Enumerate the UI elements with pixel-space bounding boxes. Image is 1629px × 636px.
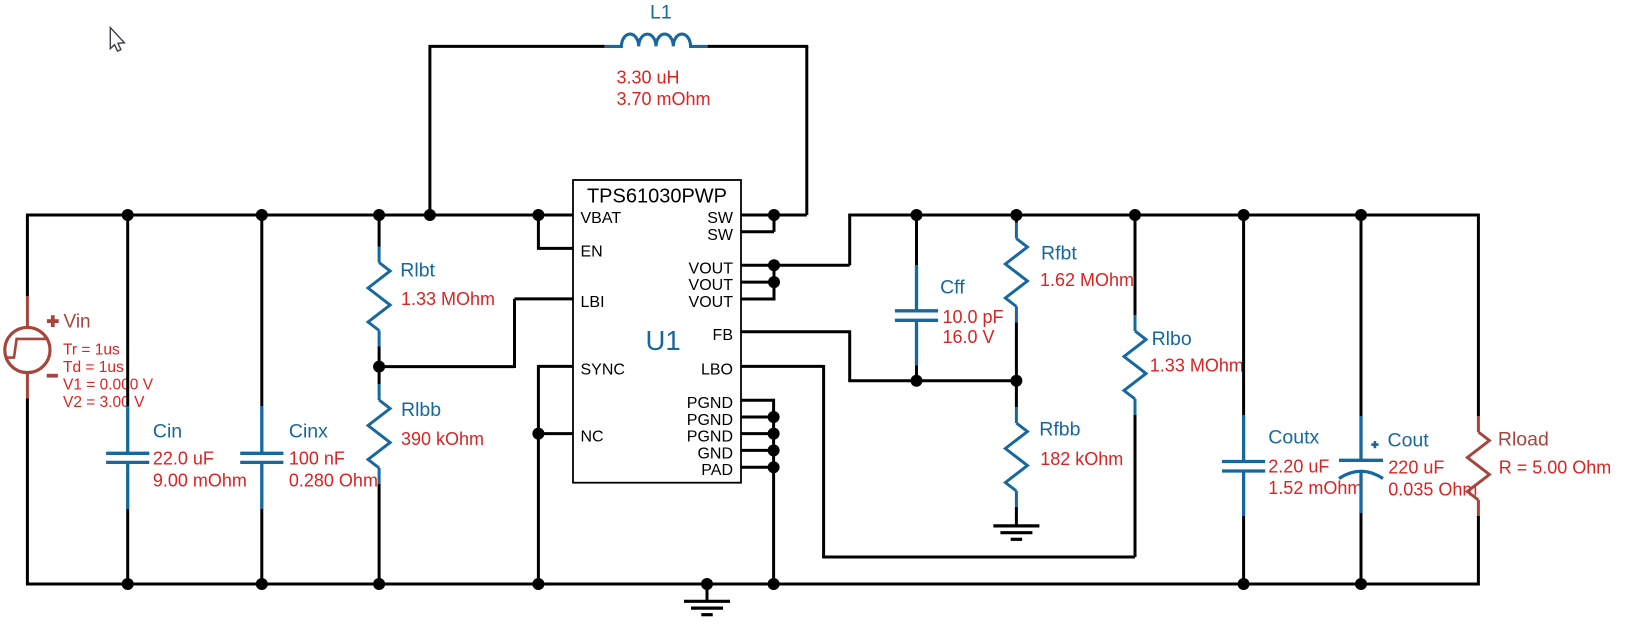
- svg-text:SYNC: SYNC: [581, 361, 625, 378]
- junction PAD pin: [768, 461, 780, 473]
- svg-text:3.70 mOhm: 3.70 mOhm: [617, 89, 711, 109]
- svg-text:Rfbt: Rfbt: [1041, 242, 1077, 264]
- wire Cin upper lead: [126, 215, 129, 406]
- wire LBI pin stub: [515, 297, 574, 300]
- svg-text:220 uF: 220 uF: [1388, 458, 1444, 478]
- wire VOUT3 pin stub: [741, 298, 774, 301]
- wire SYNC/NC riser: [537, 365, 540, 584]
- resistor Rlbb: [368, 384, 390, 484]
- junction VOUT1 node: [768, 259, 780, 271]
- svg-text:16.0 V: 16.0 V: [943, 327, 995, 347]
- junction Cinx/top rail: [256, 209, 268, 221]
- wire L1 right lead: [708, 45, 809, 48]
- label Cinx: [289, 421, 328, 443]
- svg-text:Cinx: Cinx: [289, 421, 328, 443]
- svg-text:0.035 Ohm: 0.035 Ohm: [1388, 480, 1477, 500]
- svg-text:Td = 1us: Td = 1us: [63, 359, 124, 376]
- junction Cout/output rail: [1355, 209, 1367, 221]
- pin label SW 1: [707, 210, 734, 227]
- svg-text:0.280 Ohm: 0.280 Ohm: [289, 471, 378, 491]
- Cinx value capacitance: [289, 448, 345, 468]
- svg-text:Rlbt: Rlbt: [400, 259, 435, 281]
- svg-text:Coutx: Coutx: [1268, 426, 1319, 448]
- Cout plus polarity mark: [1371, 441, 1378, 448]
- svg-text:2.20 uF: 2.20 uF: [1268, 457, 1329, 477]
- wire EN riser: [537, 215, 540, 248]
- svg-text:9.00 mOhm: 9.00 mOhm: [153, 471, 247, 491]
- junction Cout/bottom rail: [1355, 578, 1367, 590]
- svg-text:SW: SW: [707, 210, 734, 227]
- svg-text:SW: SW: [707, 227, 734, 244]
- pin label SYNC: [581, 361, 625, 378]
- wire SW bus riser: [773, 215, 776, 232]
- pin label GND: [697, 445, 733, 462]
- wire VOUT1 pin stub: [741, 264, 850, 267]
- svg-text:R = 5.00 Ohm: R = 5.00 Ohm: [1499, 458, 1612, 478]
- svg-text:GND: GND: [697, 445, 733, 462]
- wire VOUT bus riser: [773, 265, 776, 300]
- Cout value ESR: [1388, 480, 1477, 500]
- wire L1 left lead: [428, 45, 604, 48]
- label Rlbt: [400, 259, 435, 281]
- capacitor Cin: [106, 406, 149, 509]
- Cinx value ESR: [289, 471, 378, 491]
- wire Cff lower lead: [915, 366, 918, 381]
- Coutx value capacitance: [1268, 457, 1329, 477]
- junction Cinx/bottom rail: [256, 578, 268, 590]
- wire Rfbb lower lead: [1015, 507, 1018, 526]
- pin label PGND 1: [687, 395, 733, 412]
- wire SW2 pin stub: [741, 230, 774, 233]
- wire Rfbt lower lead: [1015, 323, 1018, 381]
- resistor Rfbb: [1005, 407, 1027, 507]
- wire SW1 pin to L1: [741, 214, 807, 217]
- svg-text:Cff: Cff: [940, 276, 965, 298]
- wire Cinx upper lead: [260, 215, 263, 406]
- capacitor Cout (polarized): [1339, 416, 1383, 513]
- junction Coutx/output rail: [1238, 209, 1250, 221]
- wire Rlbt upper lead: [378, 215, 381, 247]
- svg-text:Cin: Cin: [153, 421, 182, 443]
- wire LBO bottom run: [822, 556, 1135, 559]
- svg-text:182 kOhm: 182 kOhm: [1040, 449, 1123, 469]
- label Vin: [64, 311, 91, 332]
- wire Rload lower lead: [1477, 516, 1480, 585]
- wire Cin lower lead: [126, 509, 129, 584]
- svg-text:PGND: PGND: [687, 412, 733, 429]
- Rfbt value: [1040, 270, 1134, 290]
- wire PGND2 pin stub: [741, 416, 774, 419]
- U1 title: [587, 185, 727, 207]
- pin label LBO: [701, 361, 733, 378]
- wire Rfbt upper lead: [1015, 215, 1018, 223]
- junction Cin/top rail: [122, 209, 134, 221]
- junction Coutx/bottom rail: [1238, 578, 1250, 590]
- junction Rlbo/output rail: [1129, 209, 1141, 221]
- wire GND pin stub: [741, 449, 774, 452]
- wire output top rail: [848, 214, 1478, 217]
- label Coutx: [1268, 426, 1319, 448]
- Rload value: [1499, 458, 1612, 478]
- svg-text:Rlbb: Rlbb: [401, 399, 441, 421]
- wire left rail upper (Vin+ lead): [26, 214, 29, 296]
- svg-text:Rfbb: Rfbb: [1039, 418, 1080, 440]
- pin label VOUT 3: [689, 294, 734, 311]
- Vin value Td: [63, 359, 124, 376]
- svg-text:PGND: PGND: [687, 395, 733, 412]
- Vin plus terminal mark: [47, 315, 59, 327]
- wire LBI junction horizontal: [379, 365, 514, 368]
- resistor Rload: [1467, 416, 1489, 516]
- wire left rail lower (Vin- to ground rail): [26, 399, 29, 586]
- svg-text:LBO: LBO: [701, 361, 733, 378]
- svg-text:PGND: PGND: [687, 429, 733, 446]
- svg-text:22.0 uF: 22.0 uF: [153, 448, 214, 468]
- svg-text:1.33 MOhm: 1.33 MOhm: [401, 289, 495, 309]
- Rlbb value: [401, 429, 484, 449]
- wire Coutx lower lead: [1242, 516, 1245, 584]
- Vin minus terminal mark: [47, 374, 58, 378]
- junction Rfbt/output rail: [1010, 209, 1022, 221]
- pin label VOUT 1: [689, 260, 734, 277]
- svg-text:V1 = 0.000 V: V1 = 0.000 V: [63, 377, 154, 394]
- wire PGND3 pin stub: [741, 432, 774, 435]
- svg-text:U1: U1: [646, 325, 681, 356]
- svg-text:Cout: Cout: [1388, 429, 1430, 451]
- wire LBO pin stub: [741, 365, 824, 368]
- svg-text:1.62 MOhm: 1.62 MOhm: [1040, 270, 1134, 290]
- inductor L1: [605, 34, 708, 46]
- wire LBO drop: [822, 365, 825, 557]
- svg-text:1.33 MOhm: 1.33 MOhm: [1150, 356, 1244, 376]
- Rlbo value: [1150, 356, 1244, 376]
- Vin value Tr: [63, 342, 120, 359]
- svg-text:Rload: Rload: [1498, 428, 1549, 450]
- junction ground/bottom rail: [701, 578, 713, 590]
- capacitor Coutx: [1222, 415, 1265, 516]
- Coutx value ESR: [1268, 478, 1362, 498]
- junction Cin/bottom rail: [122, 578, 134, 590]
- ground symbol main: [684, 601, 730, 614]
- junction SYNC riser/bottom rail: [532, 578, 544, 590]
- label Rfbb: [1039, 418, 1080, 440]
- svg-text:LBI: LBI: [581, 294, 605, 311]
- capacitor Cinx: [240, 406, 283, 509]
- L1 value inductance: [617, 68, 680, 88]
- wire input top rail (Vin+ to VBAT): [27, 214, 573, 217]
- resistor Rlbo: [1124, 315, 1146, 415]
- Cff value capacitance: [943, 307, 1004, 327]
- label U1 designator: [646, 325, 681, 356]
- svg-text:Rlbo: Rlbo: [1152, 328, 1192, 350]
- svg-text:VOUT: VOUT: [689, 294, 734, 311]
- pin label LBI: [581, 294, 605, 311]
- wire bottom ground rail: [27, 583, 1478, 586]
- wire Rlbo upper lead: [1134, 215, 1137, 316]
- wire VOUT riser to output rail: [848, 215, 851, 265]
- wire PAD pin stub: [741, 466, 774, 469]
- Cout value capacitance: [1388, 458, 1444, 478]
- Rlbt value: [401, 289, 495, 309]
- svg-text:PAD: PAD: [701, 462, 733, 479]
- node LBI divider junction: [373, 361, 385, 373]
- pin label PGND 3: [687, 429, 733, 446]
- wire Coutx upper lead: [1242, 215, 1245, 415]
- svg-text:390 kOhm: 390 kOhm: [401, 429, 484, 449]
- wire Rlbb lower lead: [378, 484, 381, 584]
- svg-text:100 nF: 100 nF: [289, 448, 345, 468]
- junction Rlbt/top rail: [373, 209, 385, 221]
- junction ground bus/bottom rail: [768, 578, 780, 590]
- junction L1 tap/top rail: [424, 209, 436, 221]
- wire Rlbb upper lead: [378, 367, 381, 384]
- pin label EN: [581, 243, 603, 260]
- wire PGND1 pin stub: [741, 399, 774, 402]
- mouse cursor: [110, 28, 124, 52]
- pin label NC: [581, 429, 604, 446]
- label Cin: [153, 421, 182, 443]
- junction GND pin: [768, 444, 780, 456]
- svg-text:VOUT: VOUT: [689, 277, 734, 294]
- voltage source Vin: [5, 296, 50, 399]
- wire FB mid rail: [848, 379, 1016, 382]
- label Rfbt: [1041, 242, 1077, 264]
- junction Cff/FB rail: [911, 375, 923, 387]
- wire ground bus riser: [772, 399, 775, 584]
- svg-text:3.30 uH: 3.30 uH: [617, 68, 680, 88]
- junction Cff/output rail: [911, 209, 923, 221]
- resistor Rfbt: [1005, 223, 1027, 323]
- svg-text:EN: EN: [581, 243, 603, 260]
- junction Rlbb/bottom rail: [373, 578, 385, 590]
- L1 value resistance: [617, 89, 711, 109]
- capacitor Cff: [895, 265, 938, 366]
- wire SYNC pin stub: [538, 365, 573, 368]
- svg-text:V2 = 3.00 V: V2 = 3.00 V: [63, 394, 145, 411]
- label Rlbo: [1152, 328, 1192, 350]
- svg-text:Vin: Vin: [64, 311, 91, 332]
- wire NC pin stub: [538, 432, 573, 435]
- svg-text:VBAT: VBAT: [581, 210, 622, 227]
- svg-text:L1: L1: [650, 1, 672, 23]
- label Rload: [1498, 428, 1549, 450]
- junction Rfbt/FB rail: [1010, 375, 1022, 387]
- junction PGND3: [768, 428, 780, 440]
- pin label SW 2: [707, 227, 734, 244]
- svg-text:FB: FB: [713, 327, 733, 344]
- pin label VBAT: [581, 210, 622, 227]
- Rfbb value: [1040, 449, 1123, 469]
- Cin value ESR: [153, 471, 247, 491]
- pin label FB: [713, 327, 733, 344]
- junction PGND2: [768, 411, 780, 423]
- label L1: [650, 1, 672, 23]
- wire Rlbt lower lead: [378, 347, 381, 367]
- svg-text:Tr = 1us: Tr = 1us: [63, 342, 120, 359]
- pin label PAD: [701, 462, 733, 479]
- label Cff: [940, 276, 965, 298]
- wire Cinx lower lead: [260, 509, 263, 584]
- junction EN tap/top rail: [532, 209, 544, 221]
- wire Rlbo lower lead: [1134, 415, 1137, 557]
- Vin value V1: [63, 377, 154, 394]
- Cin value capacitance: [153, 448, 214, 468]
- label Rlbb: [401, 399, 441, 421]
- junction VOUT2 node: [768, 276, 780, 288]
- junction NC tap: [532, 428, 544, 440]
- wire FB drop: [848, 330, 851, 380]
- pin label PGND 2: [687, 412, 733, 429]
- wire Cff upper lead: [915, 215, 918, 265]
- op-amp U1 IC body TPS61030PWP: [573, 180, 741, 483]
- Cff value voltage: [943, 327, 995, 347]
- resistor Rlbt: [368, 247, 390, 347]
- svg-text:VOUT: VOUT: [689, 260, 734, 277]
- wire Cout upper lead: [1360, 215, 1363, 460]
- wire EN pin stub: [537, 247, 573, 250]
- wire LBI riser: [513, 299, 516, 368]
- svg-text:TPS61030PWP: TPS61030PWP: [587, 185, 727, 207]
- wire Rload upper lead: [1477, 214, 1480, 417]
- wire VOUT2 pin stub: [741, 281, 774, 284]
- svg-text:10.0 pF: 10.0 pF: [943, 307, 1004, 327]
- pin label VOUT 2: [689, 277, 734, 294]
- wire Rfbb upper lead: [1015, 381, 1018, 407]
- ground symbol Rfbb: [993, 526, 1039, 539]
- wire main ground stub: [706, 584, 709, 601]
- Vin value V2: [63, 394, 145, 411]
- label Cout: [1388, 429, 1430, 451]
- wire L1 left riser: [428, 46, 431, 215]
- wire Cout lower lead: [1360, 513, 1363, 584]
- svg-text:1.52 mOhm: 1.52 mOhm: [1268, 478, 1362, 498]
- junction SW node: [768, 209, 780, 221]
- svg-text:NC: NC: [581, 429, 604, 446]
- wire L1 right riser (to SW): [805, 46, 808, 215]
- wire FB pin stub: [741, 330, 850, 333]
